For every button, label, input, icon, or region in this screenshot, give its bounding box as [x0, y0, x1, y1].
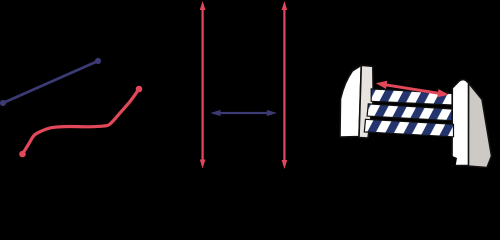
right post front face — [452, 79, 469, 165]
right vertical red double arrow — [282, 1, 288, 169]
horizontal navy double arrow — [210, 110, 277, 116]
left post front face — [340, 65, 361, 137]
straight navy segment with endpoint dots — [0, 58, 101, 106]
pole 3 shadow band over right post base — [442, 153, 457, 167]
jump fence illustration — [340, 65, 492, 167]
striped pole 2 — [367, 104, 452, 121]
left post side face — [359, 65, 373, 138]
right post side face — [468, 83, 492, 168]
striped pole 1 — [371, 89, 452, 105]
left vertical red double arrow — [200, 1, 206, 169]
red S-curve with endpoint dots — [19, 86, 142, 158]
striped pole 3 — [364, 119, 453, 137]
red double arrow across fence top — [376, 81, 449, 97]
